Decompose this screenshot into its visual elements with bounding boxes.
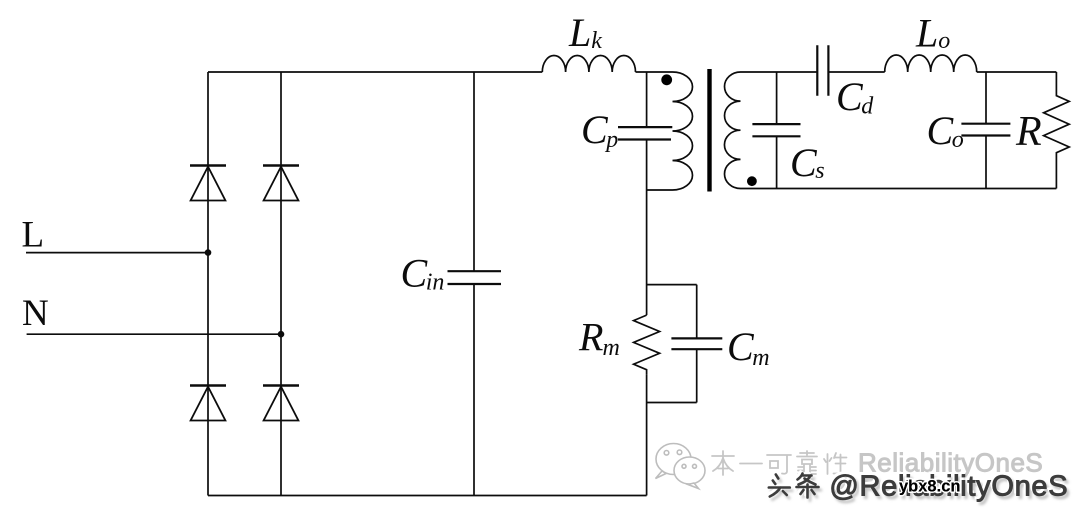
svg-text:Lk: Lk (568, 10, 602, 55)
svg-text:L: L (22, 214, 45, 255)
svg-text:Cs: Cs (790, 140, 825, 185)
svg-text:ybx8.cn: ybx8.cn (899, 478, 960, 496)
svg-text:Cp: Cp (581, 107, 618, 153)
svg-text:N: N (22, 293, 49, 334)
svg-text:Rm: Rm (578, 315, 620, 361)
svg-text:Co: Co (927, 108, 964, 153)
svg-text:Lo: Lo (915, 11, 950, 56)
svg-text:Cd: Cd (836, 74, 874, 119)
svg-text:Cin: Cin (401, 250, 445, 295)
svg-text:Cm: Cm (727, 324, 770, 371)
svg-text:R: R (1015, 109, 1042, 155)
